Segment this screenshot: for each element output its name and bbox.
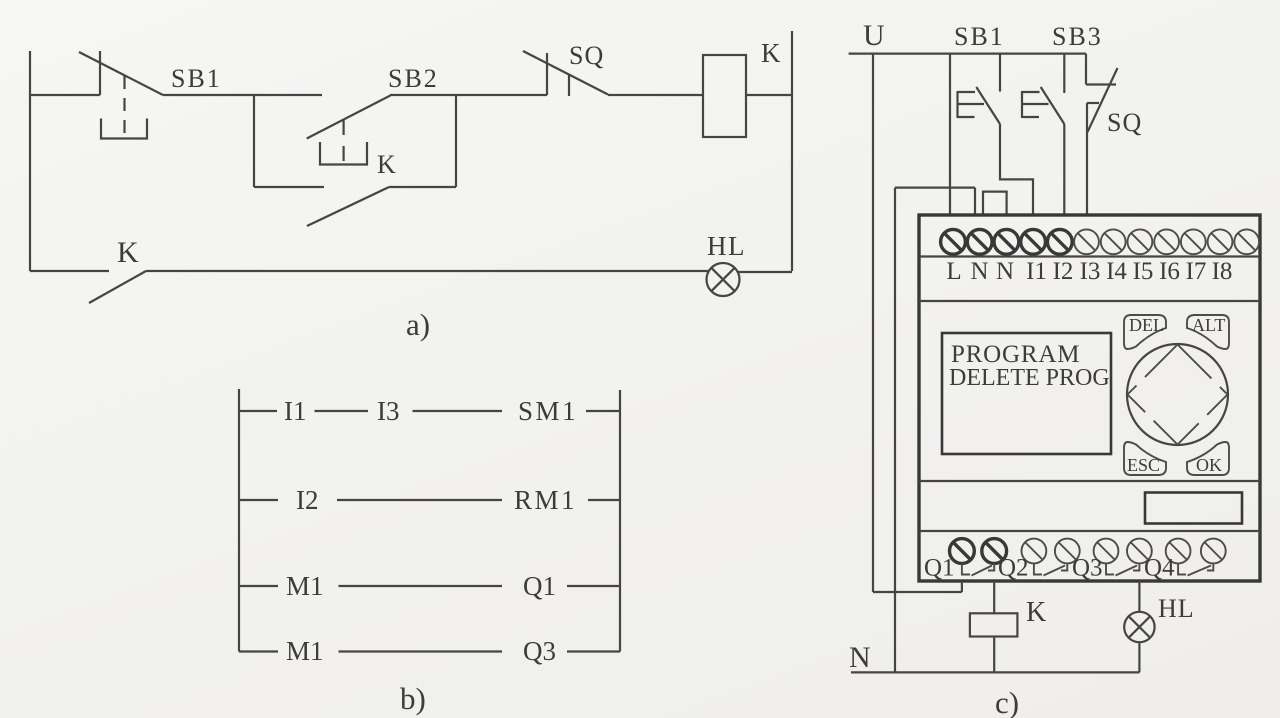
svg-text:Q4: Q4 (1144, 555, 1175, 582)
output contact mark Q2 (1034, 563, 1067, 575)
svg-text:I2: I2 (1053, 258, 1074, 285)
output contact mark Q4 (1178, 563, 1213, 575)
rung 3 wire (239, 585, 620, 587)
wire branch vertical right (455, 95, 457, 187)
wire top rail segment 1 (30, 94, 100, 96)
wire lamp to N line (1138, 642, 1140, 672)
output module window (1145, 493, 1242, 524)
svg-text:Q1: Q1 (924, 555, 955, 582)
svg-text:PROGRAM: PROGRAM (951, 341, 1080, 368)
svg-text:K: K (377, 150, 396, 179)
wire top supply line (849, 52, 1086, 54)
svg-text:I2: I2 (296, 485, 319, 515)
svg-text:I1: I1 (1026, 258, 1047, 285)
lamp HL (707, 263, 740, 296)
wire lamp to right rail (737, 271, 792, 273)
terminal labels L N N I1-I8 (946, 258, 1232, 285)
svg-text:SM1: SM1 (518, 396, 578, 426)
jumper N-N (983, 192, 1007, 216)
rung 1 wire (239, 410, 620, 412)
svg-text:N: N (996, 258, 1014, 285)
wire L terminal drop (949, 54, 951, 216)
nav pad diamond (1128, 345, 1228, 445)
rung 2 wire (239, 499, 620, 501)
svg-text:I3: I3 (377, 396, 400, 426)
svg-text:Q2: Q2 (998, 555, 1029, 582)
limit switch SQ plc (NC) (1086, 54, 1118, 216)
svg-text:M1: M1 (286, 636, 324, 666)
wire U drop (872, 54, 874, 592)
svg-text:RM1: RM1 (514, 485, 577, 515)
output section line (919, 530, 1260, 532)
wire rail to coil (608, 94, 703, 96)
svg-text:I6: I6 (1159, 258, 1180, 285)
svg-text:b): b) (400, 681, 426, 716)
wire N terminal link (895, 188, 975, 216)
relay coil K (plc) (970, 613, 1018, 636)
svg-text:K: K (1026, 597, 1046, 628)
contact K (NO, parallel branch) (307, 187, 389, 226)
svg-text:SB1: SB1 (954, 22, 1005, 51)
lamp HL plc (1124, 612, 1154, 642)
svg-text:I8: I8 (1212, 258, 1233, 285)
mid section line (919, 480, 1260, 482)
wire left bus (238, 389, 240, 652)
wire N bus drop (894, 188, 896, 673)
svg-text:Q1: Q1 (523, 571, 556, 601)
wire branch vertical left (253, 95, 255, 187)
relay coil K (703, 55, 746, 137)
svg-text:K: K (761, 38, 781, 68)
pushbutton SB1 (NC) contact (79, 51, 163, 139)
svg-text:I5: I5 (1133, 258, 1154, 285)
wire bottom rail middle (146, 270, 708, 272)
svg-text:Q3: Q3 (523, 636, 556, 666)
limit switch SQ (NC) (523, 51, 608, 96)
contact K (NO, lamp row) (89, 271, 146, 303)
wire Q1 to relay coil (993, 581, 995, 613)
wire right bus (619, 390, 621, 652)
svg-text:Q3: Q3 (1072, 555, 1103, 582)
svg-text:K: K (117, 236, 139, 269)
svg-text:HL: HL (1158, 594, 1195, 623)
wire Q1 line feed (873, 581, 962, 592)
svg-text:N: N (970, 258, 988, 285)
wire left rail (29, 51, 31, 271)
svg-text:I4: I4 (1106, 258, 1127, 285)
svg-text:SB3: SB3 (1052, 22, 1103, 51)
svg-text:DEL: DEL (1129, 315, 1164, 335)
display window (942, 333, 1111, 454)
svg-text:ESC: ESC (1127, 455, 1160, 475)
svg-text:DELETE PROG: DELETE PROG (949, 365, 1110, 391)
svg-text:SB2: SB2 (388, 64, 439, 93)
button OK (1187, 442, 1229, 475)
svg-text:SQ: SQ (1107, 108, 1142, 137)
nav pad circle (1127, 344, 1228, 445)
output contact mark Q1 (962, 563, 994, 575)
svg-text:I3: I3 (1080, 258, 1101, 285)
button ESC (1124, 442, 1166, 475)
svg-text:HL: HL (707, 231, 746, 261)
wire top rail segment 3 (390, 94, 547, 96)
svg-text:M1: M1 (286, 571, 324, 601)
button ALT (1187, 315, 1229, 349)
wire top rail segment 2 (163, 94, 322, 96)
output contact mark Q3 (1106, 563, 1139, 575)
svg-text:L: L (946, 258, 961, 285)
PLC case (919, 215, 1260, 581)
wire Q3 to lamp (1138, 581, 1140, 612)
wire branch bottom left (254, 186, 324, 188)
wire branch bottom right (389, 186, 456, 188)
pushbutton SB1 plc (NO) (958, 54, 1034, 216)
wire bottom rail left (30, 270, 109, 272)
terminal strip line (919, 255, 1260, 257)
svg-text:ALT: ALT (1192, 315, 1225, 335)
svg-text:c): c) (995, 685, 1019, 718)
svg-text:OK: OK (1196, 455, 1222, 475)
svg-text:N: N (849, 641, 871, 674)
svg-text:a): a) (406, 307, 430, 342)
terminal screws bottom row (950, 539, 1226, 564)
svg-text:SB1: SB1 (171, 64, 222, 93)
wire right rail (791, 31, 793, 271)
svg-text:SQ: SQ (569, 41, 604, 70)
wire coil to N line (993, 637, 995, 673)
pushbutton SB3 plc (NO) (1022, 54, 1064, 216)
rung 4 wire (239, 650, 620, 652)
wire coil to right rail (746, 94, 792, 96)
pushbutton SB2 (NO) contact (307, 96, 391, 165)
svg-text:I7: I7 (1186, 258, 1207, 285)
svg-text:I1: I1 (284, 396, 307, 426)
button DEL (1124, 315, 1166, 349)
svg-text:U: U (863, 19, 885, 52)
terminal screws top row (941, 229, 1260, 254)
input section line (919, 300, 1260, 302)
wire N line (851, 671, 1139, 673)
